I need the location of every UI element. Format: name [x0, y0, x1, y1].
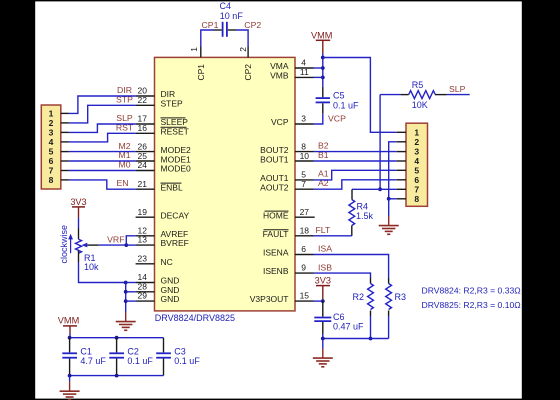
power symbol VMM (top) — [311, 31, 332, 54]
wire FLT — [314, 235, 352, 237]
node V3P3OUT junction — [321, 299, 325, 303]
wire M1 — [69, 160, 136, 162]
wire SLP pin stub — [136, 123, 155, 125]
svg-text:ISB: ISB — [318, 262, 332, 272]
svg-text:VCP: VCP — [328, 113, 346, 123]
wire J1 pin3 stub — [61, 131, 69, 133]
svg-text:RESET: RESET — [161, 126, 189, 136]
node GND29 junction — [124, 299, 128, 303]
wire GND28 — [126, 291, 136, 293]
wire CP1 pin stub — [200, 47, 202, 58]
wire NC pin stub — [136, 263, 155, 265]
wire J2 pin2 stub — [397, 141, 406, 143]
svg-text:ISENA: ISENA — [263, 248, 289, 258]
svg-text:ENBL: ENBL — [161, 182, 183, 192]
svg-text:C4: C4 — [220, 1, 232, 11]
connector J1 (left header) — [41, 105, 61, 189]
wire pin8 row — [389, 198, 397, 200]
wire J2 pin3 stub — [397, 151, 406, 153]
svg-text:VCP: VCP — [271, 117, 289, 127]
wire R3 to rail — [388, 316, 390, 339]
wire J2 pin4 stub — [397, 160, 406, 162]
wire GND28 pin stub — [136, 291, 155, 293]
svg-text:C5: C5 — [333, 91, 345, 101]
wire DECAY pin stub — [136, 216, 155, 218]
svg-text:10K: 10K — [412, 100, 428, 110]
wire rail to ground — [69, 376, 71, 382]
IC left pin name SLEEP — [161, 117, 189, 127]
wire VMB to rail — [314, 76, 323, 78]
connector J2 (right header) — [406, 123, 428, 206]
wire DIR — [69, 96, 136, 113]
ground under C6 — [313, 349, 333, 367]
capacitor C1 — [62, 338, 77, 376]
wire ISENB pin stub — [295, 272, 314, 274]
wire STP — [69, 105, 136, 123]
node J2 pin8 junction — [387, 197, 391, 201]
wire C6 to rail — [322, 334, 324, 339]
wire SLP row to J2-7 — [352, 188, 397, 190]
wire RST pin stub — [136, 132, 155, 134]
power symbol 3V3 (mid) — [315, 276, 331, 299]
IC right pin name FAULT — [263, 229, 289, 239]
wire GND14 pin stub — [136, 282, 155, 284]
wire R1 bottom to GND row — [79, 262, 126, 283]
svg-text:VMM: VMM — [311, 31, 332, 41]
svg-text:R2: R2 — [353, 292, 365, 302]
svg-text:R4: R4 — [357, 202, 369, 212]
svg-text:2: 2 — [49, 118, 54, 128]
wire J1 pin4 stub — [61, 141, 69, 143]
svg-text:0.47 uF: 0.47 uF — [333, 321, 364, 331]
wire J2 pin5 stub — [397, 169, 406, 171]
wire EN pin stub — [136, 188, 155, 190]
capacitor C2 — [109, 338, 124, 376]
wire BOUT2 pin stub — [295, 151, 314, 153]
svg-text:CP2: CP2 — [244, 20, 261, 30]
svg-text:C3: C3 — [174, 346, 186, 356]
wire DIR pin stub — [136, 95, 155, 97]
svg-text:DRV8824/DRV8825: DRV8824/DRV8825 — [155, 313, 235, 323]
svg-text:CP2: CP2 — [243, 64, 253, 81]
wire B1 — [314, 160, 397, 162]
svg-text:R3: R3 — [395, 292, 407, 302]
IC right pin name HOME — [263, 210, 289, 220]
wire 3V3 to R1 — [78, 218, 80, 228]
svg-text:0.1 uF: 0.1 uF — [333, 100, 359, 110]
wire rail to ground — [322, 339, 324, 349]
wire GND29 — [126, 300, 136, 302]
svg-text:3V3: 3V3 — [315, 276, 331, 286]
wire AVREF pin stub — [136, 235, 155, 237]
power symbol VMM (bottom) — [58, 315, 79, 333]
svg-text:EN: EN — [116, 178, 128, 188]
node SLP junction — [378, 187, 382, 191]
potentiometer R1 — [76, 228, 99, 262]
svg-text:27: 27 — [300, 207, 310, 217]
svg-text:clockwise: clockwise — [59, 225, 69, 264]
node VRF junction — [124, 243, 128, 247]
svg-text:4: 4 — [414, 156, 419, 166]
svg-text:STEP: STEP — [161, 98, 184, 108]
svg-text:DRV8824: R2,R3 = 0.33Ω: DRV8824: R2,R3 = 0.33Ω — [422, 286, 522, 296]
svg-text:R5: R5 — [412, 80, 424, 90]
svg-text:19: 19 — [138, 207, 148, 217]
svg-text:BVREF: BVREF — [161, 238, 189, 248]
node VMA junction — [321, 66, 325, 70]
wire CP2 loop — [236, 30, 248, 47]
wire HOME pin stub — [295, 216, 315, 218]
wire RST — [69, 133, 136, 142]
svg-text:23: 23 — [138, 253, 148, 263]
wire M2 pin stub — [136, 151, 155, 153]
wire J2 pin8 stub — [397, 198, 406, 200]
wire EN — [69, 180, 136, 189]
wire J1 pin5 stub — [61, 151, 69, 153]
resistor R4 — [349, 189, 355, 236]
ground under IC — [116, 312, 136, 330]
svg-text:ISENB: ISENB — [263, 266, 289, 276]
svg-text:2: 2 — [238, 47, 248, 52]
svg-text:9: 9 — [301, 263, 306, 273]
wire J1 pin6 stub — [61, 160, 69, 162]
svg-text:VMM: VMM — [58, 315, 79, 325]
svg-text:C2: C2 — [127, 346, 139, 356]
node C2 bottom junction — [115, 374, 119, 378]
wire GND29 pin stub — [136, 300, 155, 302]
wire R5 to SLP label — [447, 94, 470, 96]
IC left pin name RESET — [161, 126, 189, 136]
wire VMM to J2-1 — [323, 58, 397, 133]
svg-text:DECAY: DECAY — [161, 210, 190, 220]
wire FAULT pin stub — [295, 235, 314, 237]
svg-text:FAULT: FAULT — [263, 229, 289, 239]
svg-text:1: 1 — [189, 47, 199, 52]
wire ISA to R3 — [314, 255, 389, 279]
svg-text:AOUT2: AOUT2 — [260, 182, 289, 192]
wire V3P3OUT to node — [314, 300, 323, 302]
wire V3P3OUT pin stub — [295, 300, 314, 302]
wire AVREF riser — [126, 236, 136, 245]
wire A1 — [314, 170, 397, 180]
svg-text:FLT: FLT — [316, 225, 331, 235]
node VMB junction — [321, 76, 325, 80]
node VMM junction — [321, 56, 325, 60]
svg-text:C1: C1 — [80, 346, 92, 356]
svg-text:CP1: CP1 — [196, 64, 206, 81]
wire M1 pin stub — [136, 160, 155, 162]
node C1 top junction — [68, 336, 72, 340]
node C2 top junction — [115, 336, 119, 340]
svg-text:SLP: SLP — [449, 84, 466, 94]
wire SLP — [69, 124, 136, 132]
svg-text:HOME: HOME — [263, 210, 289, 220]
svg-text:V3P3OUT: V3P3OUT — [250, 294, 289, 304]
capacitor C4 — [214, 22, 237, 37]
svg-text:2: 2 — [414, 137, 419, 147]
svg-text:5: 5 — [49, 147, 54, 157]
node R2 rail junction — [369, 337, 373, 341]
svg-text:ISA: ISA — [318, 244, 332, 254]
wire ISENA pin stub — [295, 254, 314, 256]
wire GND drop — [388, 199, 390, 216]
wire VMM stem to node — [322, 54, 324, 58]
svg-text:7: 7 — [414, 184, 419, 194]
svg-text:0.1 uF: 0.1 uF — [127, 356, 153, 366]
svg-text:BOUT1: BOUT1 — [260, 154, 289, 164]
wire STP pin stub — [136, 104, 155, 106]
wire GND14 — [126, 282, 136, 284]
svg-text:CP1: CP1 — [202, 20, 219, 30]
wire VMA pin stub — [295, 67, 314, 69]
wire VMB pin stub — [295, 76, 314, 78]
IC left pin name ENBL — [161, 182, 183, 192]
wire VMA to rail — [314, 67, 323, 69]
wire VCP pin stub — [295, 123, 314, 125]
wire BOUT1 pin stub — [295, 160, 314, 162]
resistor R3 — [386, 278, 392, 316]
wire SLP riser — [379, 95, 381, 190]
wire A2 — [314, 180, 397, 189]
wire VMM to rail — [69, 334, 71, 338]
svg-text:18: 18 — [300, 225, 310, 235]
wire cap bottom rail — [70, 375, 164, 377]
svg-text:3: 3 — [414, 146, 419, 156]
svg-text:1: 1 — [414, 127, 419, 137]
resistor R5 — [401, 91, 447, 99]
wire J2 pin2 drop to GND — [389, 142, 397, 199]
svg-text:3: 3 — [49, 128, 54, 138]
ground under J2 pin8 — [379, 216, 399, 234]
wire J1 pin8 stub — [61, 179, 69, 181]
svg-text:8: 8 — [414, 194, 419, 204]
svg-text:VMB: VMB — [270, 71, 289, 81]
svg-text:3: 3 — [301, 114, 306, 124]
svg-text:MODE0: MODE0 — [161, 164, 192, 174]
svg-text:10k: 10k — [84, 262, 99, 272]
node C1 bottom junction — [68, 374, 72, 378]
svg-text:NC: NC — [161, 257, 173, 267]
wire R2 to rail — [370, 316, 372, 339]
wire VRF wiper — [99, 244, 127, 246]
wire B2 — [314, 151, 397, 153]
wire J2 pin7 stub — [397, 188, 406, 190]
node GND14 junction — [124, 281, 128, 285]
wire CP2 pin stub — [247, 47, 249, 58]
wire ISB to R2 — [314, 273, 371, 277]
wire BVREF — [126, 244, 136, 246]
wire M0 — [69, 170, 136, 172]
wire BVREF pin stub — [136, 244, 155, 246]
svg-text:DRV8825: R2,R3 = 0.10Ω: DRV8825: R2,R3 = 0.10Ω — [422, 300, 522, 310]
svg-text:5: 5 — [414, 165, 419, 175]
node C6 rail junction — [321, 337, 325, 341]
wire J2 pin1 stub — [397, 131, 406, 133]
wire cap top rail — [70, 337, 164, 339]
wire J2 pin6 stub — [397, 179, 406, 181]
wire CP1 loop — [201, 30, 214, 47]
svg-text:4: 4 — [49, 137, 54, 147]
svg-text:1.5k: 1.5k — [356, 211, 374, 221]
svg-text:6: 6 — [49, 156, 54, 166]
wire AOUT1 pin stub — [295, 179, 314, 181]
capacitor C3 — [156, 338, 171, 376]
wire J1 pin1 stub — [61, 112, 69, 114]
svg-text:6: 6 — [301, 244, 306, 254]
svg-text:VRF: VRF — [107, 235, 124, 245]
wire R5 left to riser — [380, 94, 401, 96]
node GND28 junction — [124, 290, 128, 294]
wire J1 pin7 stub — [61, 170, 69, 172]
svg-text:10 nF: 10 nF — [220, 11, 244, 21]
wire VMM vertical to C5 — [322, 58, 324, 87]
wire VCP — [314, 114, 323, 124]
wire M0 pin stub — [136, 170, 155, 172]
capacitor C5 — [316, 87, 330, 114]
svg-text:GND: GND — [161, 294, 180, 304]
wire M2 — [69, 151, 136, 153]
clockwise annotation — [59, 225, 73, 264]
svg-text:6: 6 — [414, 175, 419, 185]
connector J1 pin numbers — [49, 109, 54, 186]
svg-text:1: 1 — [49, 109, 54, 119]
svg-text:7: 7 — [49, 166, 54, 176]
wire AOUT2 pin stub — [295, 188, 314, 190]
wire sense rail — [323, 338, 389, 340]
connector J2 pin numbers — [414, 127, 419, 204]
power symbol 3V3 (left) — [70, 197, 86, 217]
wire 3V3 stem — [322, 299, 324, 301]
svg-text:4.7 uF: 4.7 uF — [80, 356, 106, 366]
ground under C1 — [60, 382, 80, 400]
capacitor C6 — [314, 301, 331, 334]
wire J1 pin2 stub — [61, 122, 69, 124]
resistor R2 — [368, 278, 374, 317]
svg-text:8: 8 — [49, 175, 54, 185]
svg-text:0.1 uF: 0.1 uF — [174, 356, 200, 366]
svg-text:3V3: 3V3 — [70, 197, 86, 207]
wire GND column — [125, 283, 127, 313]
svg-text:15: 15 — [300, 291, 310, 301]
IC U1 DRV8824/DRV8825 body — [155, 57, 296, 311]
svg-text:21: 21 — [138, 179, 148, 189]
